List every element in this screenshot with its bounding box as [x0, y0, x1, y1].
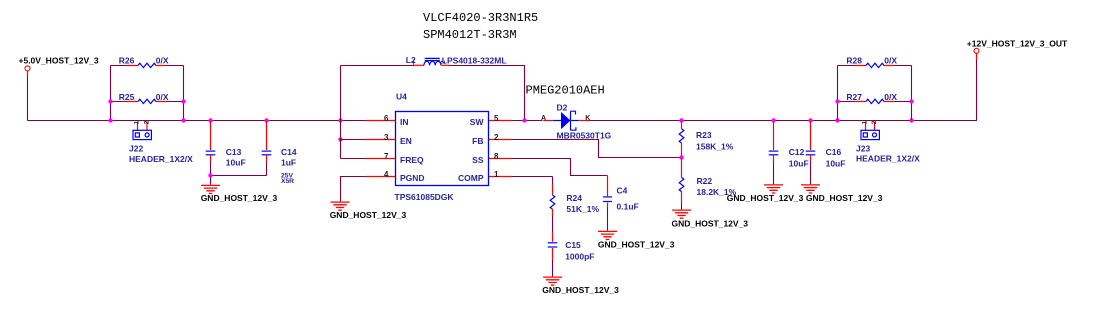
wire left vertical of R25/R26 block [110, 66, 112, 121]
wire FB net [512, 140, 682, 158]
svg-text:R27: R27 [846, 92, 862, 102]
wire R28 row [838, 65, 912, 67]
svg-text:J22: J22 [129, 143, 143, 153]
diode D2 anode pin [543, 120, 553, 122]
wire L2 to SW node [449, 66, 525, 121]
diode D2 [553, 111, 579, 130]
wire right vertical of R27/R28 block [911, 66, 913, 121]
svg-text:158K_1%: 158K_1% [696, 142, 734, 152]
svg-text:GND_HOST_12V_3: GND_HOST_12V_3 [201, 193, 278, 203]
connector J22 body [133, 130, 151, 139]
svg-text:VLCF4020-3R3N1R5: VLCF4020-3R3N1R5 [423, 11, 538, 25]
capacitor C16 bottom pin [810, 156, 812, 162]
svg-text:GND_HOST_12V_3: GND_HOST_12V_3 [598, 239, 675, 249]
capacitor C12 [769, 150, 779, 152]
ground below C12 [764, 185, 783, 193]
svg-text:K: K [585, 115, 590, 122]
terminal +12V_HOST_12V_3_OUT [974, 48, 979, 53]
wire EN branch [341, 139, 367, 141]
junction dot bus at C14 [264, 118, 268, 122]
ground below C16 [801, 185, 820, 193]
L2 pin tick [413, 60, 415, 65]
resistor R22 [679, 177, 684, 191]
svg-text:X5R: X5R [281, 178, 294, 185]
wire R27 row [838, 101, 912, 103]
svg-text:0/X: 0/X [884, 92, 897, 102]
svg-text:SPM4012T-3R3M: SPM4012T-3R3M [423, 28, 517, 42]
ground below PGND [331, 202, 350, 210]
svg-text:C14: C14 [281, 147, 297, 157]
svg-text:4: 4 [384, 170, 389, 179]
connector J23 pin2 circle [873, 133, 877, 137]
svg-text:FB: FB [472, 136, 483, 146]
capacitor C15 [548, 242, 558, 244]
wire C16 to ground [810, 162, 812, 185]
wire vertical x340 to L2 and FREQ [340, 66, 342, 159]
inductor L2 left pin [414, 64, 424, 66]
wire input bus [28, 120, 367, 122]
junction dot output bus at x911 [909, 118, 913, 122]
wire R24 to C15 [552, 216, 554, 233]
svg-text:6: 6 [384, 114, 389, 123]
inductor L2 right pin [441, 64, 449, 66]
wire left vertical of R27/R28 block [837, 66, 839, 121]
resistor R28 pins [855, 65, 894, 67]
resistor R23 [679, 129, 684, 143]
resistor R24 [550, 195, 555, 209]
op-amp U4 pin stubs right [489, 121, 513, 177]
pin stub to +12V terminal [976, 53, 978, 60]
capacitor C13 top pin [210, 122, 212, 151]
svg-text:+5.0V_HOST_12V_3: +5.0V_HOST_12V_3 [19, 56, 99, 66]
junction dot SW node [522, 118, 526, 122]
svg-text:GND_HOST_12V_3: GND_HOST_12V_3 [542, 285, 619, 295]
svg-text:U4: U4 [396, 92, 407, 102]
wire output bus [590, 120, 977, 122]
wire right vertical of R25/R26 block [183, 66, 185, 121]
inductor L2 [424, 61, 441, 65]
junction dot bus at x183 [181, 118, 185, 122]
svg-text:PGND: PGND [400, 173, 425, 183]
svg-text:GND_HOST_12V_3: GND_HOST_12V_3 [672, 218, 749, 228]
capacitor C12 bottom pin [773, 156, 775, 162]
svg-text:J23: J23 [856, 143, 870, 153]
wire top row to L2 [341, 65, 415, 67]
svg-text:0/X: 0/X [884, 55, 897, 65]
wire SS net [512, 159, 608, 176]
svg-text:5: 5 [494, 114, 499, 123]
svg-text:R26: R26 [119, 55, 135, 65]
svg-text:10uF: 10uF [789, 159, 809, 169]
svg-text:1: 1 [862, 120, 869, 124]
svg-text:HEADER_1X2/X: HEADER_1X2/X [856, 154, 920, 164]
junction dot bus at x340 [338, 118, 342, 122]
capacitor C15 top pin [552, 233, 554, 242]
connector J23 pin stubs [866, 122, 875, 131]
capacitor C14 top pin [266, 122, 268, 151]
wire FREQ branch [341, 158, 367, 160]
diode D2 cathode pin [579, 120, 590, 122]
resistor R26 pins [127, 65, 166, 67]
svg-text:GND_HOST_12V_3: GND_HOST_12V_3 [330, 210, 407, 220]
svg-text:R23: R23 [696, 130, 712, 140]
resistor R22 bottom pin [681, 191, 683, 201]
connector J22 pin2 circle [145, 133, 149, 137]
svg-text:C15: C15 [565, 240, 581, 250]
svg-text:GND_HOST_12V_3: GND_HOST_12V_3 [806, 193, 883, 203]
capacitor C16 top pin [810, 122, 812, 151]
capacitor C13 bottom pin [210, 156, 212, 162]
resistor R27 pins [855, 101, 894, 103]
svg-text:R28: R28 [846, 55, 862, 65]
junction dot output bus at x838 [835, 118, 839, 122]
wire SW to diode anode [512, 120, 542, 122]
svg-text:0.1uF: 0.1uF [617, 201, 639, 211]
ground below C13 [201, 185, 220, 193]
capacitor C14 bottom pin [266, 156, 268, 162]
resistor R22 top pin [681, 158, 683, 178]
junction dot R27 left [835, 99, 839, 103]
capacitor C4 bottom pin [607, 203, 609, 208]
svg-text:+12V_HOST_12V_3_OUT: +12V_HOST_12V_3_OUT [967, 38, 1068, 48]
svg-text:LPS4018-332ML: LPS4018-332ML [442, 55, 507, 65]
svg-text:R25: R25 [119, 92, 135, 102]
junction dot bus at x110 [108, 118, 112, 122]
wire C13 to ground [211, 162, 267, 185]
resistor R27 [866, 99, 884, 103]
capacitor C4 top pin [607, 176, 609, 197]
svg-text:1: 1 [134, 120, 141, 124]
junction dot C13 ground [208, 173, 212, 177]
resistor R25 [138, 99, 156, 103]
junction dot output bus at R23 [679, 118, 683, 122]
capacitor C14 [262, 150, 272, 152]
svg-text:SS: SS [472, 155, 484, 165]
resistor R23 top pin [681, 122, 683, 129]
svg-text:2: 2 [494, 133, 499, 142]
svg-text:C13: C13 [226, 147, 242, 157]
capacitor C13 [206, 150, 216, 152]
svg-text:1: 1 [494, 170, 499, 179]
svg-text:0/X: 0/X [156, 55, 169, 65]
IC U4 body [396, 112, 489, 186]
svg-text:10uF: 10uF [826, 159, 846, 169]
connector J22 pin1 square [135, 133, 139, 137]
junction dot EN branch [338, 137, 342, 141]
svg-text:L2: L2 [406, 55, 416, 65]
junction dot R25 left [108, 99, 112, 103]
wire PGND branch [341, 177, 367, 202]
op-amp U4 pin stubs left [366, 121, 396, 177]
svg-text:SW: SW [470, 117, 485, 127]
connector J23 pin1 square [863, 133, 867, 137]
svg-text:HEADER_1X2/X: HEADER_1X2/X [129, 154, 193, 164]
svg-text:2: 2 [143, 120, 150, 124]
svg-text:C12: C12 [789, 147, 805, 157]
svg-text:COMP: COMP [458, 173, 484, 183]
wire R26 row [111, 65, 184, 67]
svg-text:51K_1%: 51K_1% [566, 204, 599, 214]
wire C15 to ground [552, 260, 554, 277]
wire COMP net [512, 176, 553, 178]
ground below R22 [672, 210, 691, 218]
resistor R26 [138, 63, 156, 67]
wire C4 to ground [607, 208, 609, 231]
svg-text:2: 2 [871, 120, 878, 124]
wire R25 row [111, 101, 184, 103]
svg-text:MBR0530T1G: MBR0530T1G [557, 130, 612, 140]
junction dot R25 right [181, 99, 185, 103]
junction dot bus at C13 [208, 118, 212, 122]
svg-text:R22: R22 [697, 176, 713, 186]
resistor R28 [866, 63, 884, 67]
svg-text:TPS61085DGK: TPS61085DGK [395, 192, 455, 202]
svg-text:GND_HOST_12V_3: GND_HOST_12V_3 [727, 193, 804, 203]
capacitor C16 [806, 150, 816, 152]
svg-text:D2: D2 [557, 103, 568, 113]
capacitor C12 top pin [773, 122, 775, 151]
resistor R25 pins [127, 101, 166, 103]
junction dot output bus at C16 [808, 118, 812, 122]
pin stub from +5V terminal [27, 71, 29, 77]
junction dot FB divider [679, 155, 683, 159]
connector J22 pin stubs [138, 122, 148, 131]
capacitor C4 [603, 196, 612, 198]
svg-text:R24: R24 [566, 193, 582, 203]
wire +5V vertical [27, 77, 29, 121]
svg-text:7: 7 [384, 152, 389, 161]
ground below C15 [543, 277, 562, 285]
ground below C4 [598, 231, 617, 239]
terminal +5.0V_HOST_12V_3 [25, 66, 30, 71]
resistor R24 top pin [552, 177, 554, 185]
svg-text:10uF: 10uF [226, 158, 246, 168]
svg-text:PMEG2010AEH: PMEG2010AEH [526, 84, 605, 98]
wire C12 to ground [773, 162, 775, 185]
svg-text:C16: C16 [826, 147, 842, 157]
resistor R24 bottom pin [552, 209, 554, 216]
svg-text:1000pF: 1000pF [565, 251, 594, 261]
svg-text:IN: IN [400, 117, 409, 127]
svg-text:3: 3 [384, 133, 389, 142]
junction dot R27 right [909, 99, 913, 103]
resistor R23 bottom pin [681, 143, 683, 158]
wire C14 down to gnd rail [266, 162, 268, 176]
junction dot output bus at C12 [771, 118, 775, 122]
capacitor C15 bottom pin [552, 248, 554, 260]
inductor L2 core bars [425, 58, 440, 60]
svg-text:1uF: 1uF [281, 158, 296, 168]
svg-text:C4: C4 [617, 186, 628, 196]
svg-text:EN: EN [400, 136, 412, 146]
connector J23 body [861, 130, 879, 139]
wire +12V output vertical [976, 60, 978, 121]
svg-text:0/X: 0/X [156, 92, 169, 102]
svg-text:8: 8 [494, 152, 499, 161]
svg-text:FREQ: FREQ [400, 155, 424, 165]
